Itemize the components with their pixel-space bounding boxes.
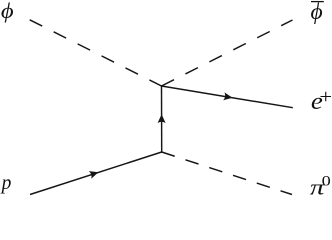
svg-text:ϕ: ϕ [311,0,323,25]
wire: p fermion line (bottom-left to lower vertex) [30,152,162,195]
wire: phi-bar dashed propagator (upper vertex to top-right) [162,20,293,86]
label: phi (incoming scalar, top left) [1,0,14,23]
lower vertex [161,151,162,152]
svg-text:+: + [319,85,332,107]
overbar of phi-bar [311,1,324,3]
label: e+ (outgoing positron) [311,87,323,114]
label: pi0 (outgoing neutral pion) [310,175,326,200]
arrow on internal line (pointing up) [158,114,166,123]
wire: e+ fermion line (upper vertex to right) [162,86,293,108]
arrow on e+ line [223,92,233,101]
wire: pi0 dashed propagator (lower vertex to bottom-right) [162,152,292,195]
arrow on p line [89,168,100,178]
wire: internal fermion propagator (lower vertex to upper vertex, vertical) [161,86,163,152]
svg-text:ϕ: ϕ [1,0,14,23]
wire: phi dashed propagator (top-left to upper vertex) [30,20,162,86]
upper vertex [161,85,162,86]
svg-text:0: 0 [322,172,331,189]
svg-text:p: p [0,173,12,194]
